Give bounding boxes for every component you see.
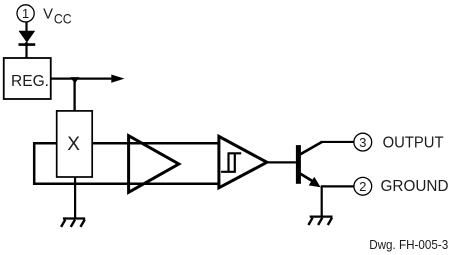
svg-text:Dwg. FH-005-3: Dwg. FH-005-3 [369,237,448,252]
svg-text:1: 1 [22,6,29,21]
svg-text:REG.: REG. [11,73,49,90]
svg-text:2: 2 [359,179,366,194]
svg-text:GROUND: GROUND [381,178,449,195]
svg-text:3: 3 [359,135,366,150]
svg-text:V: V [43,7,53,23]
svg-text:OUTPUT: OUTPUT [383,135,444,152]
svg-text:X: X [67,134,80,155]
svg-text:CC: CC [54,11,72,27]
